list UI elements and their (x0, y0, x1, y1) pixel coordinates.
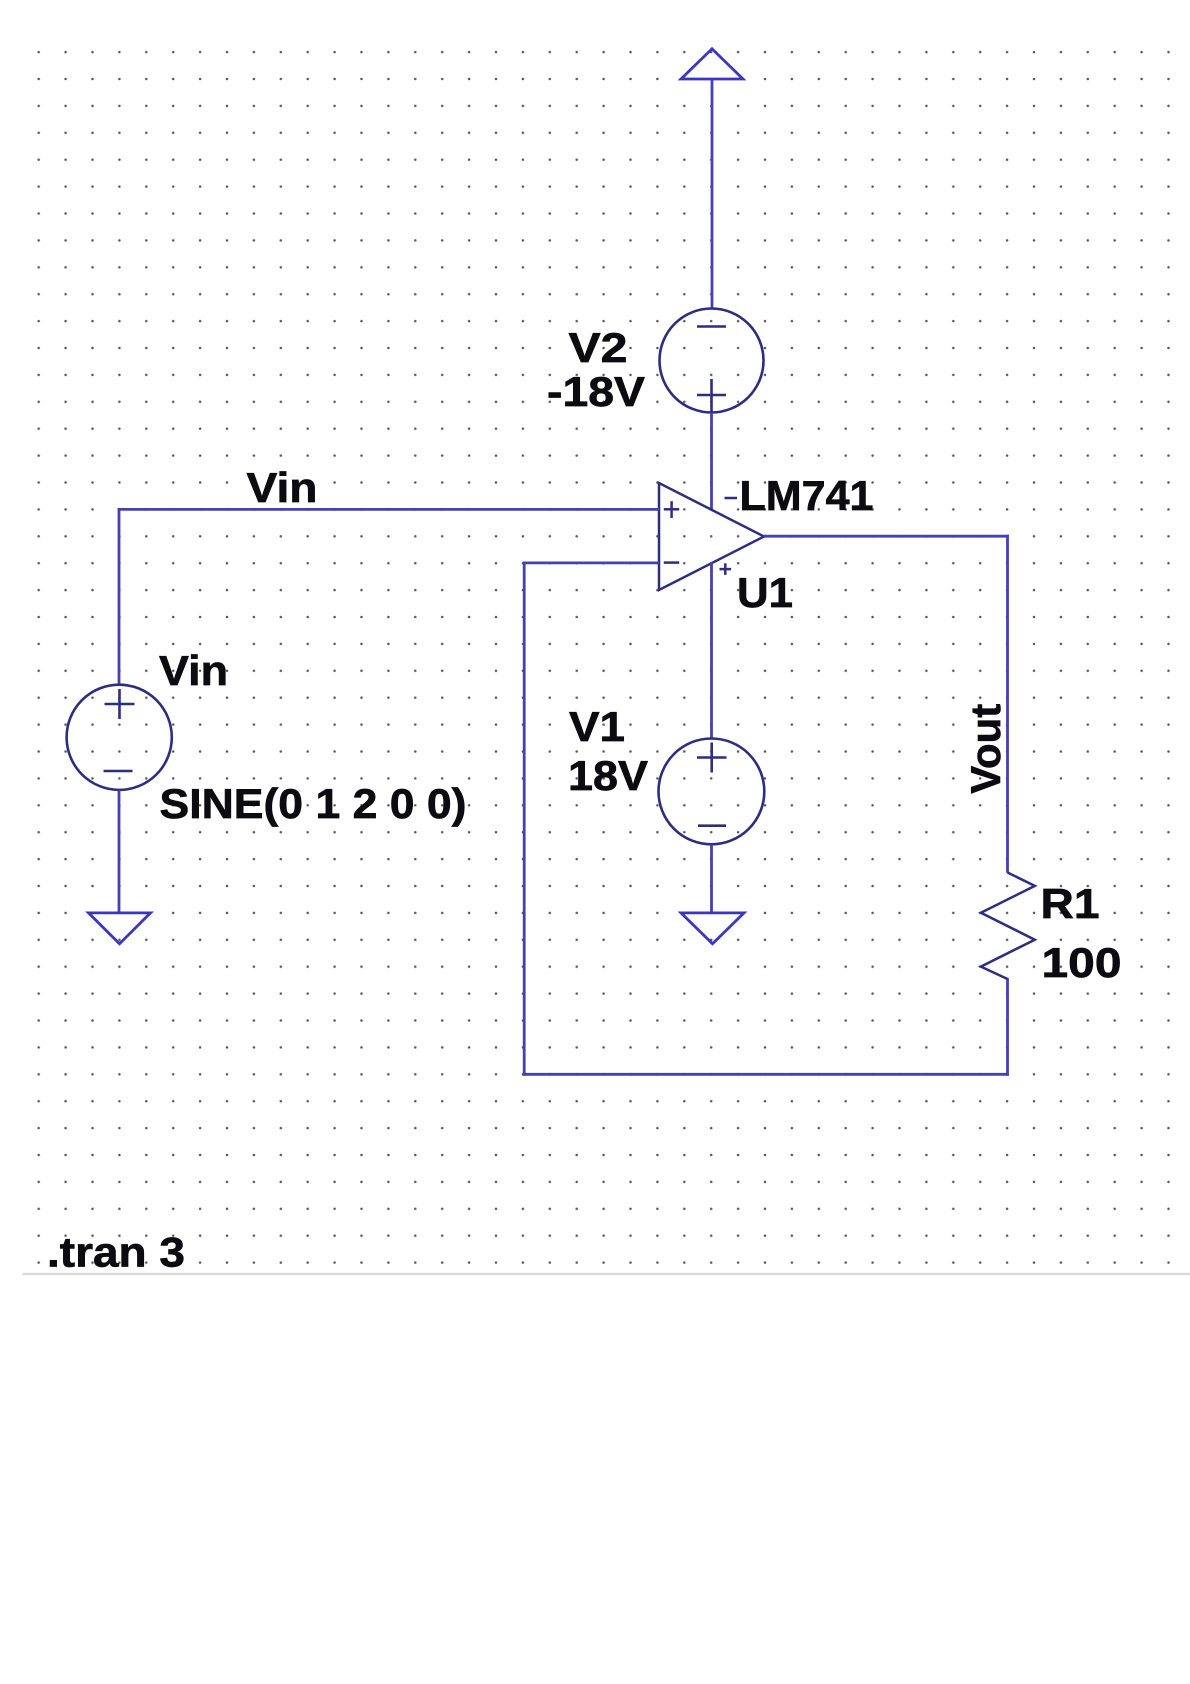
svg-text:V2: V2 (569, 324, 628, 371)
svg-text:Vin: Vin (159, 647, 228, 694)
voltage source V2 (660, 309, 764, 413)
wire op-amp output (764, 535, 1009, 538)
svg-text:-18V: -18V (547, 368, 645, 415)
wire op-amp bottom pin to V1 (710, 562, 713, 739)
voltage source V1 (659, 739, 765, 845)
wire R1 bottom to feedback (1006, 978, 1009, 1076)
wire rail to V2 top (711, 79, 714, 309)
wire noninverting input from Vin (118, 508, 659, 511)
wire V1 to ground (710, 844, 713, 913)
svg-text:18V: 18V (568, 752, 648, 799)
op-amp inverting - mark (664, 561, 679, 564)
wire Vin source to ground (118, 790, 121, 913)
svg-text:.tran 3: .tran 3 (47, 1229, 185, 1276)
svg-text:R1: R1 (1041, 880, 1100, 927)
svg-text:V1: V1 (569, 703, 625, 750)
wire inverting input feedback horizontal (524, 562, 659, 565)
ground (V1) (681, 913, 744, 944)
svg-text:SINE(0 1 2 0 0): SINE(0 1 2 0 0) (160, 780, 467, 827)
resistor R1 (981, 873, 1035, 980)
svg-text:100: 100 (1042, 939, 1122, 986)
svg-text:LM741: LM741 (740, 472, 874, 519)
op-amp V+ pin label (720, 563, 732, 575)
power flag V- rail (681, 49, 743, 79)
schematic boundary line (23, 1273, 1190, 1275)
svg-text:U1: U1 (737, 569, 793, 616)
ground (Vin) (89, 913, 151, 944)
wire output down to R1 (1006, 535, 1009, 873)
voltage source Vin (67, 685, 172, 790)
wire feedback vertical (523, 562, 526, 1076)
op-amp V- pin label (725, 497, 738, 500)
wire feedback bottom horizontal (523, 1073, 1009, 1076)
svg-text:Vout: Vout (962, 704, 1009, 794)
op-amp U1 triangle (659, 483, 764, 590)
svg-text:Vin: Vin (247, 464, 318, 511)
op-amp noninverting + mark (664, 501, 679, 518)
wire V2 bottom to op-amp top pin (710, 413, 713, 511)
wire down to Vin source (118, 508, 121, 685)
